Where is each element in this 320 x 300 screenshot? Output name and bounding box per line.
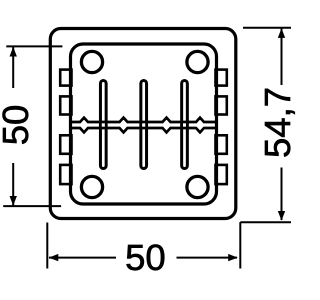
inner body square [71, 44, 217, 204]
right tab 4 [216, 165, 227, 184]
right tab 1 [216, 70, 227, 86]
left tab 1 [60, 70, 71, 86]
right dim line upper segment [281, 29, 283, 86]
hole top-left [81, 51, 102, 72]
hole bottom-right [187, 176, 208, 197]
hole top-right [187, 51, 208, 72]
left tab 2 [60, 96, 71, 114]
left dim arrow down [10, 196, 17, 206]
right dim extension top [243, 27, 291, 29]
rib 2 [141, 81, 147, 169]
left dim extension bottom [3, 205, 61, 207]
right dim extension bottom [240, 221, 291, 223]
left dim line lower segment [12, 163, 14, 206]
left dim arrow up [10, 47, 17, 57]
rib 1 [100, 81, 106, 169]
right tab 3 [216, 135, 227, 154]
hole bottom-left [81, 176, 102, 197]
svg-text:54,7: 54,7 [257, 87, 298, 158]
bottom dim line right segment [177, 257, 238, 259]
svg-text:50: 50 [125, 237, 166, 278]
white crossing dot rib2 [142, 123, 145, 126]
white crossing dot rib3 [183, 123, 186, 126]
bottom dim arrow left [49, 254, 59, 261]
right dim arrow down [278, 211, 285, 221]
right dim arrow up [278, 28, 285, 38]
rib 3 [182, 81, 188, 169]
white crossing dot rib1 [102, 123, 105, 126]
bottom dim extension right [239, 222, 241, 268]
left dim extension top [6, 45, 62, 47]
seam upper line with barbs [71, 118, 217, 122]
bottom dim arrow right [228, 254, 238, 261]
bottom dim line left segment [49, 257, 116, 259]
left tab 3 [60, 135, 71, 154]
right dim line lower segment [281, 168, 283, 221]
left tab 4 [60, 165, 71, 184]
seam lower line with barbs [71, 128, 217, 132]
svg-text:50: 50 [0, 105, 36, 146]
outer flange square of tube insert [50, 29, 236, 219]
right tab 2 [216, 96, 227, 114]
bottom dim extension left [46, 223, 48, 269]
left dim line upper segment [12, 47, 14, 88]
